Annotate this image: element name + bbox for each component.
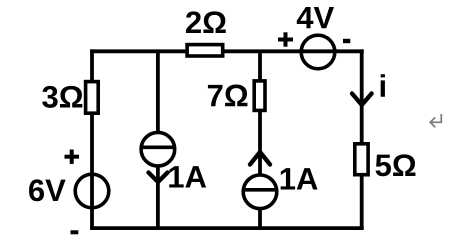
source bar (I2) <box>244 188 276 192</box>
resistor 5ohm <box>355 144 416 177</box>
voltage source V1 4V <box>278 7 350 69</box>
return glyph <box>430 114 441 127</box>
minus sign (4V) <box>343 39 350 43</box>
current source I1 1A (down) <box>141 132 206 187</box>
label 2ohm <box>186 11 226 33</box>
resistor 3ohm <box>42 82 98 114</box>
wire top <box>90 49 364 53</box>
minus sign (6V) <box>71 230 79 234</box>
resistor 7ohm <box>208 81 265 111</box>
source bar (I1) <box>142 146 174 150</box>
current arrow i <box>352 74 385 105</box>
label i <box>381 74 385 96</box>
arrowhead down (I1) <box>149 173 168 183</box>
label 1A (I2) <box>281 168 318 189</box>
resistor 2ohm <box>186 11 226 56</box>
arrowhead up (I2) <box>250 152 270 165</box>
label 6V <box>29 179 66 201</box>
label 3ohm <box>42 86 82 108</box>
wire middle branch 1 <box>156 51 160 228</box>
wire left <box>90 49 94 230</box>
wire right <box>360 49 364 230</box>
label 7ohm <box>208 85 248 107</box>
plus sign (4V) <box>278 38 293 42</box>
wire middle branch 2 <box>258 51 262 228</box>
voltage source V2 6V <box>29 150 109 233</box>
wire bottom <box>90 226 364 230</box>
label 1A (I1) <box>169 166 206 187</box>
label 4V <box>297 7 334 28</box>
plus sign (6V) <box>65 155 80 159</box>
current source I2 1A (up) <box>243 152 317 209</box>
label 5ohm <box>376 154 416 176</box>
arrowhead down (i) <box>352 94 372 106</box>
